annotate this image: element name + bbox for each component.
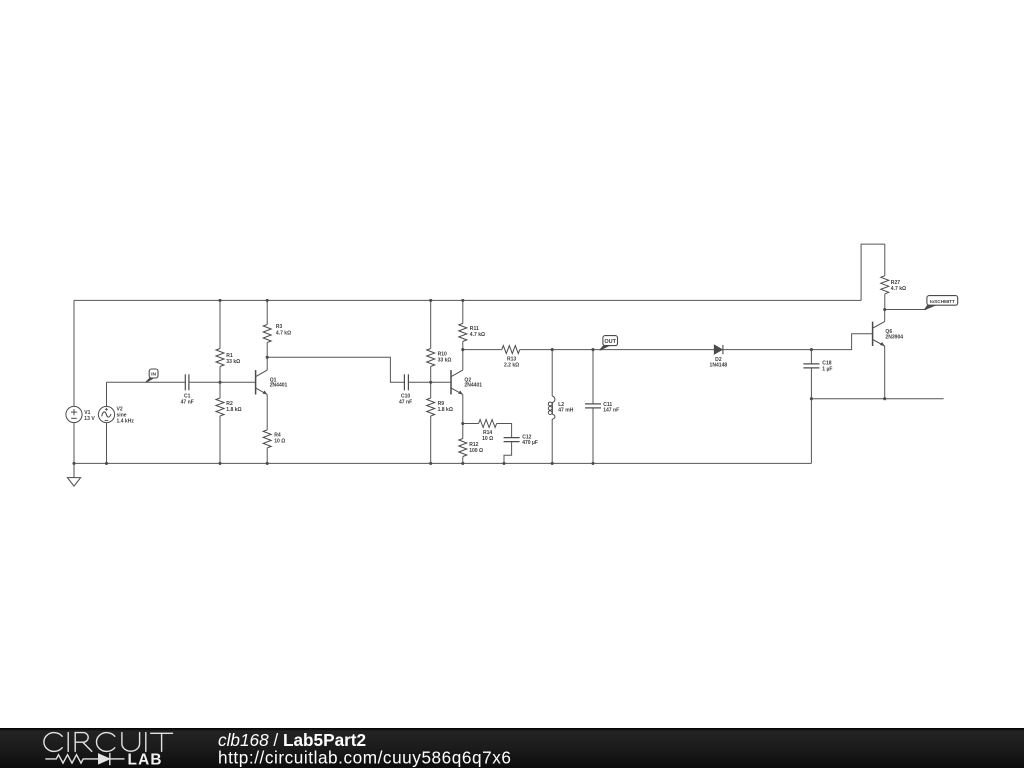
wire R12 bottom lead [462,457,464,464]
transistor Q2 [451,370,463,394]
node junction R2 bottom [218,462,221,465]
wire to R14 [463,423,479,425]
resistor R4 [263,430,271,448]
inductor L2 [548,396,555,419]
svg-text:C1047 nF: C1047 nF [399,394,412,406]
logo resistor-diode symbol [45,753,124,765]
wire R3 bottom lead [266,343,268,358]
svg-text:C181 µF: C181 µF [822,361,832,373]
node junction L2 top [551,348,554,351]
wire R11 bottom lead [462,341,464,349]
flag toSCHMITT [925,296,958,310]
node junction L2 bottom [551,462,554,465]
wire input node to C1 [107,381,186,383]
resistor R14 [479,420,497,428]
wire Q1 emitter to R4 [266,395,268,430]
wire collector to toSCHMITT [885,309,927,311]
wire C10 to Q2 base [408,381,451,383]
voltage source V1 [66,406,82,422]
resistor R9 [427,398,435,416]
ground [67,463,80,486]
capacitor C10 [404,374,408,390]
resistor R11 [459,323,467,341]
wire Q1 collector [266,357,268,370]
node junction C11 bottom [591,462,594,465]
node junction Q2 base [429,381,432,384]
node junction R11/top rail [461,299,464,302]
svg-text:LAB: LAB [128,751,163,768]
wire Q2 emitter [462,395,464,424]
node junction R4 bottom [266,462,269,465]
wire R27 bottom lead [884,294,886,310]
resistor R3 [263,325,271,343]
node junction Q1 base [218,381,221,384]
wire R2 bottom lead [219,416,221,463]
wire D2 to C18 node [723,349,811,351]
wire R14 to C12 [497,424,512,438]
node junction R12 bottom [461,462,464,465]
capacitor C11 [585,404,601,408]
wire R3 top lead [266,300,268,324]
wire R10 top lead [430,300,432,348]
svg-text:http://circuitlab.com/cuuy586q: http://circuitlab.com/cuuy586q6q7x6 [218,747,511,767]
node junction Q2 collector [461,348,464,351]
logo CIRCUIT wordmark [44,733,173,752]
node junction R9 bottom [429,462,432,465]
capacitor C18 [803,364,819,368]
wire ground rail riser [810,399,812,464]
svg-text:OUT: OUT [604,339,616,345]
resistor R2 [216,398,224,416]
svg-text:IN: IN [151,372,156,378]
wire C18 node to Q6 base [811,334,872,350]
node junction ground [72,462,75,465]
resistor R13 [502,346,520,354]
wire R11 top lead [462,300,464,323]
svg-text:toSCHMITT: toSCHMITT [930,299,955,304]
node junction Q6 collector [883,308,886,311]
wire bottom ground rail [74,462,811,464]
wire L2 bottom lead [551,419,553,463]
wire V1 to ground rail [73,423,75,464]
wire Q6 collector [884,310,886,322]
wire emitter return rail [811,398,943,400]
node junction C12 bottom [502,462,505,465]
wire C11 bottom lead [592,408,594,464]
node junction R10/top rail [429,299,432,302]
wire Q6 emitter to rail [884,346,886,399]
wire R9 top lead [430,382,432,398]
wire Q1 collector to C10 [267,357,404,382]
node junction Q2 emitter [461,422,464,425]
wire C18 bottom lead [810,368,812,399]
wire R27 top lead [884,244,886,276]
wire C1 to Q1 base [189,381,256,383]
wire R10 bottom lead [430,367,432,383]
wire left rail to V1 [73,300,75,406]
wire R13 to D2 [520,349,714,351]
wire R9 bottom lead [430,416,432,463]
wire C12 to ground rail [504,442,512,464]
wire Q2 collector node to R13 [463,349,502,351]
node junction R3/top rail [266,299,269,302]
node junction Q6 emitter [883,397,886,400]
resistor R12 [459,439,467,457]
node junction V2 bottom [105,462,108,465]
capacitor C1 [185,374,189,390]
flag OUT [600,336,617,350]
node junction R1/top rail [218,299,221,302]
diode D2 [714,345,723,354]
wire V2 bottom lead [106,423,108,464]
wire top supply rail [74,299,861,301]
node junction emitter rail [810,397,813,400]
transistor Q1 [256,370,268,394]
voltage source V2 sine [98,406,114,422]
node junction Q1 collector [266,356,269,359]
wire R12 top lead [462,424,464,439]
transistor Q6 [873,322,885,346]
wire R1 top lead [219,300,221,348]
wire C11 top lead [592,350,594,404]
wire R1 bottom lead [219,367,221,383]
wire R4 bottom lead [266,448,268,464]
flag IN [146,369,158,382]
capacitor C12 [504,438,520,442]
node junction C11 top [591,348,594,351]
node junction C18 top [810,348,813,351]
wire top-right jog to R27 [861,244,885,300]
resistor R10 [427,349,435,367]
resistor R27 [881,276,889,294]
wire R2 top lead [219,382,221,398]
wire C18 top lead [810,350,812,364]
wire V2 to input node [106,382,108,406]
svg-text:R1410 Ω: R1410 Ω [482,430,493,442]
resistor R1 [216,349,224,367]
wire Q2 collector [462,350,464,371]
wire L2 top lead [551,350,553,396]
